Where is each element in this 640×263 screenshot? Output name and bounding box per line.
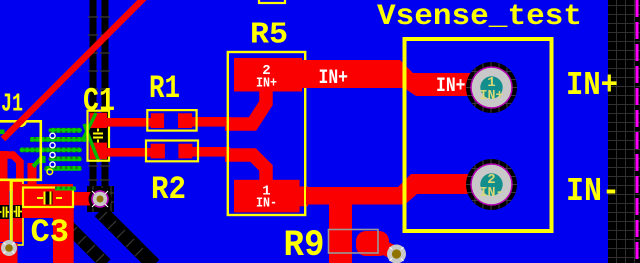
- svg-text:C3: C3: [31, 214, 70, 251]
- connector P1 Vsense_test outline: [405, 39, 552, 231]
- magenta boundary dashed line: [636, 0, 639, 263]
- connector J1 pin1 yellow circle: [47, 169, 53, 175]
- resistor R5 outline: [228, 52, 305, 215]
- resistor R9 outline: [329, 230, 379, 254]
- capacitor C2 symbol: [14, 206, 23, 217]
- capacitor C4 bottom pad: [0, 219, 9, 242]
- capacitor C2 bottom pad: [13, 218, 23, 242]
- resistor R1 left pad: [151, 113, 164, 128]
- capacitor C3 symbol: [37, 192, 62, 205]
- resistor R2 right pad: [178, 144, 192, 159]
- svg-text:R2: R2: [151, 171, 186, 208]
- connector P1 pad 2 rings: [470, 163, 513, 206]
- connector J1 green trace row2: [30, 137, 86, 142]
- keepout diagonal band B: [100, 211, 154, 263]
- capacitor C3 body fill: [22, 184, 73, 218]
- connector P1 pad 1 hatched disc: [466, 62, 517, 113]
- connector P1 pad 1 rings: [470, 66, 513, 109]
- via V1 near C3: [89, 188, 112, 211]
- wire: red diagonal trace top-left: [3, 0, 145, 139]
- svg-text:IN+: IN+: [256, 76, 277, 92]
- wire: R9 pad to via diagonal: [374, 243, 397, 254]
- keepout hatched bar left: [90, 0, 97, 188]
- wire: red column B J1: [28, 163, 37, 190]
- capacitor C2 outline: [12, 181, 23, 245]
- node: green dot at diagonal end: [0, 130, 5, 135]
- capacitor C4 (left partial) top pad: [0, 184, 9, 205]
- capacitor C3 outline: [23, 188, 73, 208]
- wire: R5 pad1 internal trace: [225, 155, 266, 182]
- wire: trace R2 to R5: [190, 147, 230, 157]
- connector J1 green bar row3: [20, 148, 83, 153]
- wire: trace R1 to R5: [190, 117, 230, 127]
- svg-text:IN-: IN-: [256, 196, 277, 212]
- silk fragment box top: [259, 0, 285, 3]
- keepout hatched bar right: [102, 0, 109, 188]
- capacitor C4 symbol: [0, 207, 9, 218]
- keepout diagonal band A: [59, 217, 106, 263]
- capacitor C2 black middle: [13, 205, 23, 218]
- wire: red column below C3: [53, 205, 74, 263]
- capacitor C1 symbol: [93, 129, 103, 143]
- svg-text:R5: R5: [250, 18, 288, 53]
- resistor R1 outline: [147, 110, 196, 131]
- capacitor C3 symbol black back: [44, 192, 53, 205]
- svg-text:R1: R1: [149, 70, 180, 107]
- resistor R2 outline: [146, 141, 198, 162]
- svg-text:IN+: IN+: [319, 67, 349, 90]
- via V2 bottom-left: [1, 240, 17, 256]
- resistor R2 left pad: [151, 144, 165, 159]
- capacitor C1 green X: [83, 113, 100, 162]
- wire: IN+ trace R5 to Vsense pad1: [301, 60, 478, 96]
- svg-text:IN+: IN+: [436, 75, 466, 98]
- wire: R5 pad2 internal trace: [225, 87, 266, 124]
- wire: red blob above capacitors: [0, 179, 22, 191]
- capacitor C4 black middle: [0, 205, 9, 219]
- wire: red trace C3 to via: [70, 192, 95, 206]
- wire: red column A J1: [16, 162, 23, 190]
- svg-text:IN-: IN-: [566, 173, 620, 210]
- resistor R1 right pad: [178, 113, 192, 128]
- resistor R5 pad 2: [234, 58, 302, 92]
- connector J1 green bar row1: [49, 128, 83, 133]
- wire: trace C1 to R2: [105, 148, 153, 157]
- svg-text:Vsense_test: Vsense_test: [377, 0, 582, 34]
- svg-text:IN-: IN-: [480, 185, 504, 201]
- capacitor C1 top pad: [90, 113, 108, 128]
- svg-text:IN+: IN+: [480, 88, 504, 104]
- wire: trace C1 to R1: [105, 118, 153, 127]
- connector J1 green diagonal to column B: [33, 156, 44, 167]
- connector J1 outline: [0, 121, 41, 180]
- wire: red trace left edge into J1: [0, 155, 20, 184]
- capacitor C1 outline: [88, 111, 110, 161]
- red bottom-left corner zone: [0, 243, 18, 263]
- connector J1 green bar row4: [49, 157, 83, 162]
- resistor R9 pad: [356, 231, 389, 256]
- connector J1 pin hole rings: [50, 133, 55, 167]
- resistor R5 pad 1 tab: [299, 187, 308, 207]
- connector J1 green bar row5: [44, 166, 82, 171]
- svg-text:R9: R9: [284, 225, 325, 263]
- capacitor C1 black middle: [90, 128, 108, 143]
- svg-text:J1: J1: [1, 89, 23, 119]
- wire: IN- horizontal trace: [306, 174, 478, 205]
- resistor R5 pad 1: [234, 180, 300, 213]
- wire: red left-edge strip: [0, 151, 8, 189]
- keepout bar tick marks: [88, 17, 110, 180]
- connector J1 green bottom segment: [55, 187, 76, 191]
- connector P1 pad 2 hatched disc: [466, 159, 517, 210]
- via V3 at R9: [387, 245, 406, 263]
- grid lines on black strip: [608, 0, 640, 263]
- capacitor C2 top pad: [13, 184, 23, 205]
- capacitor C1 bottom pad: [90, 143, 108, 159]
- capacitor C4 outline right edge: [10, 181, 12, 245]
- keepout hatched square at via: [87, 186, 114, 212]
- wire: red vertical trace T to bottom: [329, 190, 352, 263]
- diagonal band ticks: [60, 212, 143, 262]
- black work-area strip right: [608, 0, 640, 263]
- svg-text:C1: C1: [83, 83, 115, 120]
- svg-text:IN+: IN+: [566, 67, 618, 104]
